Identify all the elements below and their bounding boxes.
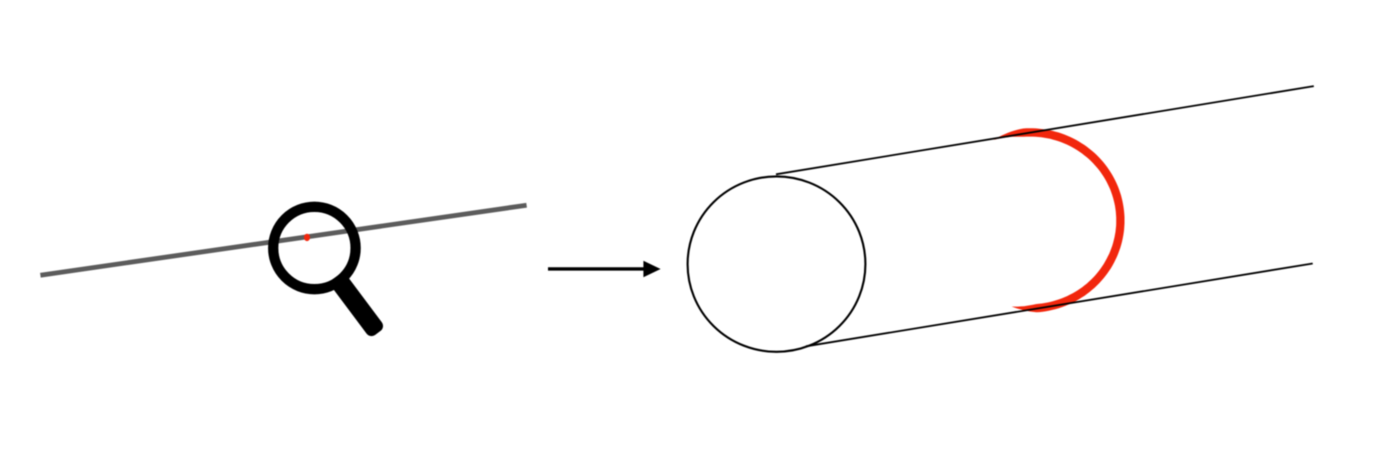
magnifier lens ring bbox=[273, 207, 355, 289]
1D line (gray) bbox=[40, 205, 526, 275]
arrow shaft bbox=[548, 267, 647, 270]
magnifier handle bbox=[328, 271, 385, 338]
arrow head bbox=[643, 261, 660, 278]
red circle cross-section (tapered crescent arc) bbox=[994, 128, 1125, 312]
cylinder top edge line bbox=[776, 86, 1314, 174]
cylinder bottom edge line bbox=[806, 264, 1313, 347]
cylinder end cap circle bbox=[688, 176, 866, 351]
red dot (magnified point) bbox=[304, 234, 310, 241]
